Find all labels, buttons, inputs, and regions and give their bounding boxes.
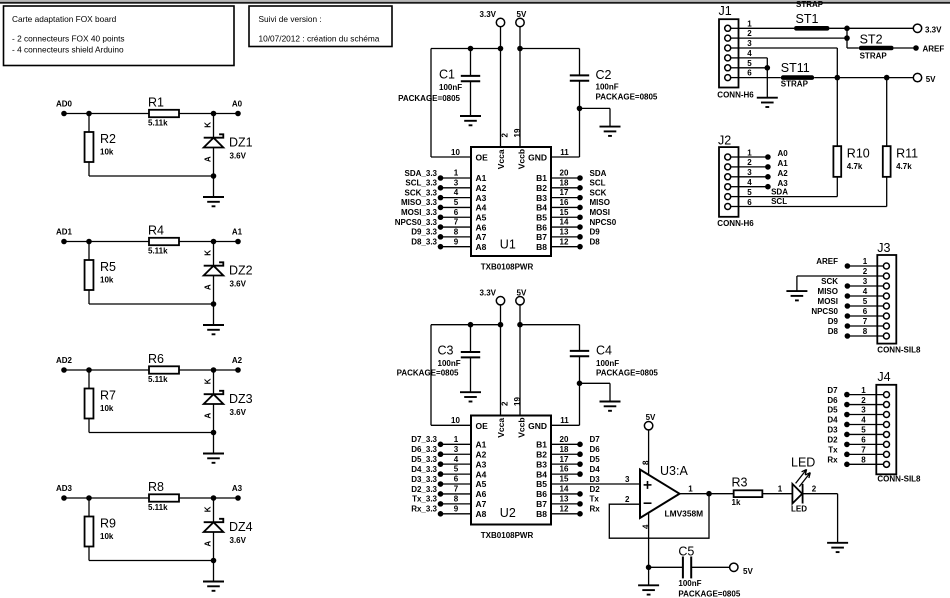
svg-text:R1: R1: [148, 96, 164, 110]
svg-text:A2: A2: [476, 183, 487, 193]
node A3: [235, 495, 241, 501]
junction: [646, 565, 652, 571]
wire: [88, 419, 90, 433]
svg-text:D2: D2: [590, 485, 601, 494]
svg-text:AD2: AD2: [56, 356, 73, 365]
junction op-amp output: [706, 491, 712, 497]
svg-text:B1: B1: [536, 440, 547, 450]
node AD0: [61, 111, 67, 117]
resistor R11: [886, 78, 888, 147]
wire Vccb: [519, 27, 521, 147]
svg-text:5.11k: 5.11k: [148, 246, 168, 255]
svg-text:U2: U2: [500, 506, 516, 520]
svg-text:6: 6: [747, 69, 752, 78]
svg-text:SDA: SDA: [771, 188, 788, 197]
wire J1.3: [739, 47, 838, 49]
svg-text:B8: B8: [536, 509, 547, 519]
svg-text:1k: 1k: [732, 498, 741, 507]
svg-text:5.11k: 5.11k: [148, 503, 168, 512]
wire: [88, 290, 90, 304]
svg-text:SDA: SDA: [590, 169, 607, 178]
zener diode DZ4: [213, 498, 215, 522]
J3 pin 3 SCK: [883, 283, 889, 289]
svg-text:5: 5: [863, 297, 868, 306]
svg-text:ST2: ST2: [860, 33, 883, 47]
svg-text:B5: B5: [536, 479, 547, 489]
svg-text:11: 11: [560, 148, 569, 157]
svg-text:B7: B7: [536, 499, 547, 509]
svg-text:CONN-H6: CONN-H6: [717, 90, 754, 99]
wire J2.3 A2: [739, 176, 768, 178]
svg-text:5: 5: [747, 59, 752, 68]
svg-text:U3:A: U3:A: [660, 464, 688, 478]
svg-text:10k: 10k: [100, 148, 114, 157]
svg-text:B2: B2: [536, 183, 547, 193]
svg-text:Vcca: Vcca: [496, 418, 506, 438]
resistor R9: [88, 498, 90, 517]
junction DZ1 cathode: [211, 111, 217, 117]
svg-text:5V: 5V: [517, 288, 527, 297]
svg-text:7: 7: [861, 446, 866, 455]
svg-text:PACKAGE=0805: PACKAGE=0805: [596, 93, 658, 102]
junction DZ3 anode: [211, 430, 217, 436]
ground: [460, 391, 481, 393]
svg-text:5V: 5V: [926, 75, 936, 84]
junction: [844, 26, 850, 32]
junction AD0: [86, 111, 92, 117]
resistor R5: [88, 242, 90, 261]
svg-text:Vccb: Vccb: [517, 417, 527, 437]
J1 pin 1: [725, 25, 731, 31]
svg-text:9: 9: [454, 504, 459, 513]
wire: [551, 156, 580, 158]
svg-text:R4: R4: [148, 224, 164, 238]
svg-text:TXB0108PWR: TXB0108PWR: [481, 531, 534, 540]
ground: [213, 176, 215, 197]
power flag 5V op-amp: [644, 422, 652, 430]
wire: [64, 241, 149, 243]
svg-text:STRAP: STRAP: [781, 79, 809, 88]
svg-text:4: 4: [454, 455, 459, 464]
svg-text:100nF: 100nF: [438, 359, 461, 368]
svg-text:D7_3.3: D7_3.3: [411, 435, 437, 444]
wire: [179, 113, 238, 115]
wire J1.5: [739, 67, 768, 69]
ground: [600, 401, 621, 403]
wire: [762, 493, 792, 495]
wire: [846, 28, 848, 48]
svg-text:D9_3.3: D9_3.3: [411, 228, 437, 237]
strap ST11: [781, 75, 814, 80]
svg-text:CONN-SIL8: CONN-SIL8: [877, 474, 921, 483]
svg-text:D6: D6: [590, 445, 601, 454]
svg-text:K: K: [204, 122, 213, 128]
junction: [498, 46, 504, 52]
junction: [835, 75, 841, 81]
svg-text:A7: A7: [476, 232, 487, 242]
wire J1.6 to ST11: [739, 77, 781, 79]
junction: [765, 65, 771, 71]
svg-text:MISO_3.3: MISO_3.3: [401, 198, 438, 207]
svg-text:18: 18: [560, 178, 569, 187]
junction: [577, 381, 583, 387]
svg-text:LED: LED: [791, 505, 807, 514]
svg-text:Tx_3.3: Tx_3.3: [412, 495, 437, 504]
J3 pin 6 NPCS0: [883, 313, 889, 319]
junction DZ4 anode: [211, 558, 217, 564]
svg-text:OE: OE: [476, 153, 489, 163]
svg-text:2: 2: [812, 484, 817, 493]
wire op-amp pin 4: [648, 513, 650, 586]
svg-text:C4: C4: [596, 344, 612, 358]
svg-text:D4: D4: [827, 416, 838, 425]
svg-text:100nF: 100nF: [439, 83, 462, 92]
svg-text:PACKAGE=0805: PACKAGE=0805: [596, 368, 658, 377]
svg-text:U1: U1: [500, 238, 516, 252]
IC U2 TXB0108PWR body: [471, 416, 551, 525]
svg-text:A3: A3: [778, 179, 789, 188]
svg-text:PACKAGE=0805: PACKAGE=0805: [397, 368, 459, 377]
svg-text:16: 16: [560, 465, 569, 474]
svg-text:ST1: ST1: [796, 12, 819, 26]
LED D1: [792, 484, 802, 504]
J3 pin 1 AREF: [883, 263, 889, 269]
svg-text:- 2 connecteurs FOX 40 points: - 2 connecteurs FOX 40 points: [12, 33, 125, 43]
svg-text:15: 15: [560, 475, 569, 484]
wire J2.5 SDA: [739, 196, 838, 198]
svg-text:2: 2: [500, 133, 509, 138]
svg-text:4: 4: [747, 49, 752, 58]
svg-text:3: 3: [747, 168, 752, 177]
resistor R2: [88, 114, 90, 133]
svg-text:A5: A5: [476, 212, 487, 222]
svg-text:PACKAGE=0805: PACKAGE=0805: [398, 94, 460, 103]
svg-text:B3: B3: [536, 193, 547, 203]
svg-text:4: 4: [747, 178, 752, 187]
svg-text:7: 7: [863, 317, 868, 326]
wire: [803, 493, 838, 495]
wire 3.3V rail: [431, 48, 501, 50]
power flag 3.3V: [496, 297, 504, 305]
svg-text:20: 20: [560, 435, 569, 444]
J4 pin 2 D6: [884, 402, 890, 408]
zener diode DZ3: [213, 370, 215, 394]
zener diode DZ2: [213, 242, 215, 266]
node AD1: [61, 239, 67, 245]
svg-text:GND: GND: [528, 421, 547, 431]
svg-text:SCL: SCL: [590, 179, 606, 188]
svg-text:1: 1: [454, 169, 459, 178]
svg-text:K: K: [204, 250, 213, 256]
svg-text:OE: OE: [476, 421, 489, 431]
svg-text:Vccb: Vccb: [517, 149, 527, 169]
svg-text:LED: LED: [791, 456, 815, 470]
junction: [498, 322, 504, 328]
svg-text:3.6V: 3.6V: [230, 408, 247, 417]
svg-text:SCK: SCK: [821, 277, 838, 286]
svg-text:A1: A1: [778, 159, 789, 168]
svg-text:ST11: ST11: [781, 61, 810, 75]
svg-text:SCK: SCK: [590, 188, 607, 197]
svg-text:Rx: Rx: [827, 456, 838, 465]
svg-text:C3: C3: [438, 344, 454, 358]
svg-text:MOSI: MOSI: [590, 208, 610, 217]
svg-text:PACKAGE=0805: PACKAGE=0805: [678, 589, 740, 598]
ground: [213, 561, 215, 582]
IC U1 TXB0108PWR body: [471, 147, 551, 256]
svg-text:5V: 5V: [517, 10, 527, 19]
junction DZ2 anode: [211, 301, 217, 307]
power flag 5V: [516, 18, 524, 26]
J1 pin 2: [725, 35, 731, 41]
resistor R7: [88, 370, 90, 389]
svg-text:6: 6: [454, 208, 459, 217]
power flag 5V C5: [730, 563, 738, 571]
svg-text:R2: R2: [100, 132, 116, 146]
svg-text:12: 12: [560, 504, 569, 513]
svg-text:7: 7: [454, 485, 459, 494]
svg-text:15: 15: [560, 208, 569, 217]
svg-text:3.3V: 3.3V: [925, 25, 942, 34]
svg-text:6: 6: [454, 475, 459, 484]
wire J3.2 to ground: [797, 275, 877, 277]
strap ST2: [859, 46, 894, 51]
svg-text:A2: A2: [476, 449, 487, 459]
wire: [88, 547, 90, 561]
junction DZ4 cathode: [211, 495, 217, 501]
sheet top border: [0, 0, 950, 2]
svg-text:D3: D3: [590, 475, 601, 484]
svg-text:5: 5: [454, 198, 459, 207]
wire J1.2: [739, 37, 848, 39]
svg-text:13: 13: [560, 227, 569, 236]
wire ST1 to 3.3V: [830, 27, 914, 29]
svg-text:17: 17: [560, 455, 569, 464]
svg-text:D7: D7: [590, 435, 601, 444]
svg-text:A6: A6: [476, 489, 487, 499]
svg-text:6: 6: [747, 198, 752, 207]
svg-text:A7: A7: [476, 499, 487, 509]
wire J2.2 A1: [739, 166, 768, 168]
svg-text:B2: B2: [536, 449, 547, 459]
wire J1.1 to ST1: [739, 27, 795, 29]
svg-text:D3: D3: [827, 426, 838, 435]
svg-text:D4: D4: [590, 465, 601, 474]
svg-text:D9: D9: [590, 228, 601, 237]
wire J1.4: [739, 57, 768, 59]
svg-text:1: 1: [454, 435, 459, 444]
junction DZ3 cathode: [211, 367, 217, 373]
capacitor C5: [649, 566, 683, 568]
svg-text:A0: A0: [232, 99, 243, 108]
node AD3: [61, 495, 67, 501]
svg-text:2: 2: [625, 495, 630, 504]
svg-text:5: 5: [454, 465, 459, 474]
svg-text:D2: D2: [827, 436, 838, 445]
svg-text:4: 4: [861, 416, 866, 425]
ground: [827, 542, 848, 544]
svg-text:B4: B4: [536, 469, 547, 479]
svg-text:3.6V: 3.6V: [230, 536, 247, 545]
svg-text:D5: D5: [590, 455, 601, 464]
J4 pin 8 Rx: [884, 461, 890, 467]
svg-text:R8: R8: [148, 480, 164, 494]
svg-text:A2: A2: [232, 356, 243, 365]
svg-text:D5: D5: [827, 406, 838, 415]
svg-text:3: 3: [454, 445, 459, 454]
wire: [551, 424, 580, 426]
svg-text:A4: A4: [476, 469, 487, 479]
ground: [460, 115, 481, 117]
svg-text:100nF: 100nF: [596, 83, 619, 92]
junction: [884, 75, 890, 81]
wire ST2 to AREF: [894, 47, 916, 49]
svg-text:- 4 connecteurs shield Arduino: - 4 connecteurs shield Arduino: [12, 44, 124, 54]
svg-text:NPCS0: NPCS0: [811, 307, 838, 316]
svg-text:100nF: 100nF: [678, 579, 701, 588]
wire: [179, 497, 238, 499]
svg-text:J4: J4: [877, 370, 890, 384]
svg-text:A: A: [204, 541, 213, 547]
resistor R10: [833, 146, 841, 177]
svg-text:10/07/2012 : création du schém: 10/07/2012 : création du schéma: [259, 33, 380, 43]
svg-text:9: 9: [454, 237, 459, 246]
svg-text:STRAP: STRAP: [796, 0, 824, 9]
wire: [179, 369, 238, 371]
svg-text:A0: A0: [778, 149, 789, 158]
resistor R4: [149, 238, 179, 245]
wire J2.1 A0: [739, 156, 768, 158]
wire 5V rail: [520, 324, 580, 326]
svg-text:4: 4: [454, 188, 459, 197]
svg-text:13: 13: [560, 494, 569, 503]
wire: [64, 369, 149, 371]
svg-text:AD3: AD3: [56, 484, 73, 493]
J1 pin 4: [725, 55, 731, 61]
J4 pin 1 D7: [884, 392, 890, 398]
svg-text:A4: A4: [476, 203, 487, 213]
svg-text:18: 18: [560, 445, 569, 454]
svg-text:B7: B7: [536, 232, 547, 242]
wire D3 to op-amp: [551, 483, 640, 485]
ground: [213, 304, 215, 325]
svg-text:B4: B4: [536, 203, 547, 213]
svg-text:3.3V: 3.3V: [480, 288, 497, 297]
svg-text:CONN-SIL8: CONN-SIL8: [877, 345, 921, 354]
svg-text:C1: C1: [439, 68, 455, 82]
svg-text:10: 10: [451, 416, 460, 425]
op-amp minus input: [644, 502, 652, 504]
svg-text:6: 6: [861, 436, 866, 445]
J2 pin 6: [725, 204, 731, 210]
wire J2.6 SCL: [739, 206, 887, 208]
svg-text:1: 1: [747, 148, 752, 157]
svg-text:R7: R7: [100, 389, 116, 403]
svg-text:R5: R5: [100, 260, 116, 274]
J3 pin 8 D8: [883, 333, 889, 339]
svg-text:3: 3: [625, 475, 630, 484]
svg-text:5.11k: 5.11k: [148, 375, 168, 384]
power flag 3.3V: [496, 18, 504, 26]
svg-text:NPCS0: NPCS0: [590, 218, 617, 227]
svg-text:D6_3.3: D6_3.3: [411, 445, 437, 454]
svg-text:D9: D9: [828, 317, 839, 326]
resistor R3: [734, 490, 763, 497]
J2 pin 1: [725, 154, 731, 160]
svg-text:10k: 10k: [100, 276, 114, 285]
power flag 3.3V: [913, 24, 921, 32]
svg-text:17: 17: [560, 188, 569, 197]
version box: [249, 6, 392, 47]
svg-text:AREF: AREF: [923, 44, 945, 53]
resistor R1: [149, 110, 179, 117]
wire: [64, 497, 149, 499]
junction DZ2 cathode: [211, 239, 217, 245]
svg-text:12: 12: [560, 237, 569, 246]
svg-text:5.11k: 5.11k: [148, 118, 168, 127]
svg-text:Vcca: Vcca: [496, 149, 506, 169]
svg-text:D3_3.3: D3_3.3: [411, 475, 437, 484]
svg-text:D7: D7: [827, 386, 838, 395]
J1 pin 3: [725, 45, 731, 51]
svg-text:SCL: SCL: [771, 197, 787, 206]
svg-text:MOSI_3.3: MOSI_3.3: [401, 208, 438, 217]
svg-text:R10: R10: [847, 146, 870, 160]
junction: [844, 35, 850, 41]
junction: [468, 322, 474, 328]
svg-text:1: 1: [863, 257, 868, 266]
J1 pin 6: [725, 75, 731, 81]
svg-text:DZ2: DZ2: [229, 264, 253, 278]
svg-text:J3: J3: [877, 241, 890, 255]
svg-text:Rx: Rx: [590, 505, 601, 514]
svg-text:7: 7: [454, 218, 459, 227]
svg-text:TXB0108PWR: TXB0108PWR: [481, 263, 534, 272]
svg-text:A: A: [204, 284, 213, 290]
svg-text:K: K: [204, 378, 213, 384]
capacitor C3: [470, 325, 472, 352]
svg-text:Rx_3.3: Rx_3.3: [411, 505, 437, 514]
svg-text:1: 1: [861, 386, 866, 395]
svg-text:16: 16: [560, 198, 569, 207]
svg-text:SDA_3.3: SDA_3.3: [405, 169, 438, 178]
svg-text:1: 1: [688, 484, 693, 493]
svg-text:5: 5: [861, 426, 866, 435]
junction AD2: [86, 367, 92, 373]
svg-text:A1: A1: [476, 173, 487, 183]
svg-text:2: 2: [747, 29, 752, 38]
svg-text:A1: A1: [232, 227, 243, 236]
junction DZ1 anode: [211, 173, 217, 179]
wire: [580, 382, 611, 384]
svg-text:A8: A8: [476, 242, 487, 252]
svg-text:Tx: Tx: [590, 495, 600, 504]
ground: [213, 433, 215, 454]
svg-text:8: 8: [454, 494, 459, 503]
svg-text:D6: D6: [827, 396, 838, 405]
svg-text:2: 2: [747, 158, 752, 167]
ground: [757, 97, 778, 99]
J2 pin 5: [725, 194, 731, 200]
svg-text:NPCS0_3.3: NPCS0_3.3: [395, 218, 438, 227]
svg-text:MOSI: MOSI: [818, 297, 838, 306]
svg-text:R3: R3: [732, 476, 748, 490]
svg-text:10k: 10k: [100, 532, 114, 541]
svg-text:B8: B8: [536, 242, 547, 252]
svg-text:DZ4: DZ4: [229, 520, 253, 534]
svg-text:A: A: [204, 156, 213, 162]
op-amp plus input: [644, 484, 652, 486]
